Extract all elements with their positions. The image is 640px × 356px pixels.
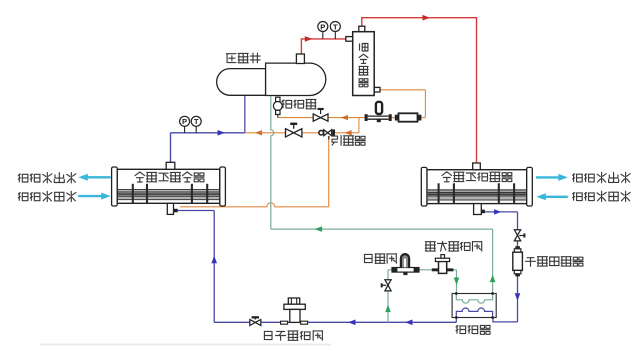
svg-text:T: T [333, 22, 338, 31]
wire discharge top horizontal [361, 17, 476, 19]
watermark bar [40, 344, 331, 346]
flow arrow economizer vapor up [490, 275, 496, 283]
wire vapor injection riser with bump [271, 96, 274, 230]
valve main liquid line [250, 320, 256, 326]
label cooling water out 冷却水出水 [573, 174, 583, 182]
solenoid valve [392, 268, 419, 273]
valve ejector line [286, 129, 294, 137]
wire discharge drop to condenser [476, 17, 478, 163]
oil pressure regulator [365, 114, 368, 121]
wire economizer feed riser [387, 270, 389, 323]
wire ejector suction riser [328, 136, 330, 207]
wire liquid into evaporator nozzle [174, 210, 214, 212]
wire economizer bottom left drop [455, 318, 457, 323]
filter drier [515, 246, 520, 249]
wire evaporator suction riser [170, 133, 172, 163]
label oil separator 油分离器 [360, 44, 368, 52]
label chilled water out 冷冻水出水 [18, 174, 28, 182]
wire discharge horizontal to oil separator [301, 38, 346, 40]
oil filter [395, 115, 399, 121]
wire oil into filter [421, 117, 425, 119]
flow arrow into economizer [454, 278, 460, 286]
wire evaporator oil line with crossover bump [180, 203, 329, 207]
condenser shell and tubes [427, 170, 527, 204]
label economizer 经济器 [456, 326, 466, 334]
flow arrow main liquid 1 [405, 320, 413, 326]
label solenoid valve 电磁阀 [365, 254, 373, 262]
wire ejector outlet to suction [245, 132, 320, 134]
label evaporator 壳管式蒸发器 [135, 172, 145, 182]
flow arrow oil return [341, 115, 348, 120]
wire drop to shutoff valve [517, 212, 519, 230]
compressor [217, 69, 266, 96]
flow arrow liquid riser up [211, 256, 217, 263]
gauge T discharge [334, 32, 336, 39]
label compressor 压缩机 [226, 54, 236, 63]
electronic expansion valve [288, 298, 299, 304]
sight glass [276, 97, 280, 101]
flow arrow main liquid 2 [348, 320, 356, 326]
cooling water in arrow [545, 196, 568, 198]
flow arrow vapor injection [315, 226, 323, 232]
wire liquid riser to evaporator [213, 211, 215, 323]
wire solenoid to TXV line [388, 269, 457, 271]
flow arrow liquid down [515, 293, 521, 301]
label sight glass 视液镜 [282, 100, 292, 108]
label ejector 引射器 [332, 135, 341, 145]
chilled water in arrow [78, 195, 101, 197]
gauge P suction [184, 127, 186, 133]
wire economizer vapor riser [492, 229, 494, 293]
wire suction riser to compressor [244, 96, 246, 133]
wire oil separator top riser [361, 18, 363, 32]
valve liquid line [514, 230, 520, 235]
wire condenser outlet [481, 211, 517, 213]
economizer [452, 294, 496, 318]
flow arrow ejector outlet [255, 130, 262, 135]
svg-text:P: P [182, 117, 187, 126]
wire valve to filter drier [517, 240, 519, 246]
thermal expansion valve [432, 268, 439, 271]
flow arrow suction [218, 130, 226, 136]
evaporator shell and tubes [117, 169, 220, 203]
flow arrow discharge [305, 36, 313, 42]
wire vapor injection horizontal [271, 228, 493, 230]
valve oil return [313, 114, 320, 121]
gauge P discharge [322, 32, 324, 39]
label TXV 热力膨胀阀 [425, 242, 435, 251]
label chilled water in 冷冻水进水 [18, 193, 28, 201]
chilled water out arrow [87, 176, 111, 178]
flow arrow condenser outlet [494, 209, 501, 214]
cooling water out arrow [536, 176, 559, 178]
wire TXV to economizer drop [456, 270, 458, 294]
wire suction horizontal [171, 132, 245, 134]
wire liquid to economizer bottom right [493, 318, 518, 322]
svg-text:T: T [194, 117, 199, 126]
svg-text:P: P [320, 22, 325, 31]
wire ejector motive drop [358, 118, 360, 133]
flow arrow economizer feed up [385, 305, 391, 313]
wire oil drop [424, 90, 426, 118]
gauge T suction [195, 127, 197, 133]
flow arrow discharge top [423, 15, 431, 21]
label cooling water in 冷却水进水 [573, 193, 583, 201]
label filter drier 干燥过滤器 [526, 258, 536, 267]
flow arrow ejector motive [345, 130, 352, 135]
wire ejector motive horizontal [334, 132, 359, 134]
wire main liquid line [214, 321, 456, 323]
label EEV 电子膨胀阀 [264, 331, 272, 339]
wire filter drier drop [517, 276, 519, 322]
wire discharge riser from compressor [300, 39, 302, 54]
label condenser 壳管式冷凝器 [442, 172, 452, 182]
oil separator [359, 26, 365, 32]
wire oil regulator to sight glass [278, 117, 365, 119]
ejector [319, 130, 324, 135]
wire oil from separator right nozzle [380, 89, 425, 91]
valve economizer feed [385, 280, 391, 285]
wire oil filter to regulator [392, 117, 396, 119]
